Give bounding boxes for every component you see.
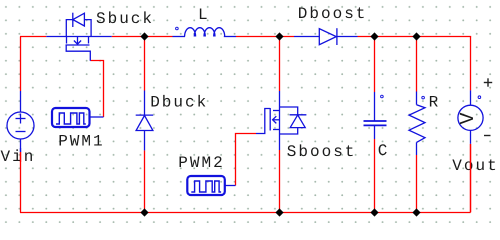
wire: top rail segment Sbuck to L [112,36,173,38]
wire: top rail segment Vin to Sbuck [20,36,46,38]
svg-text:PWM2: PWM2 [178,154,224,172]
wire: top rail segment L to Dboost [236,36,294,38]
junction C top [370,32,378,40]
pulse source PWM2 [187,176,235,195]
resistor R [409,92,425,156]
wire: bottom bus [20,212,471,214]
wire overlay over Vout label [470,144,472,212]
diode Dboost [294,28,358,45]
wire: Sbuck gate to PWM1 [90,61,103,118]
plus marker [484,78,492,86]
inductor L [173,27,237,36]
wire overlay over Vin label [20,148,22,152]
minus marker [484,135,491,137]
capacitor C [364,92,387,139]
svg-text:Dbuck: Dbuck [150,94,208,112]
wire: Dbuck bottom [144,150,146,212]
svg-text:C: C [378,142,390,160]
voltmeter Vout [458,90,483,143]
svg-text:Sboost: Sboost [287,143,357,161]
wire: C bottom [374,139,376,213]
voltage source Vin [7,91,34,152]
svg-text:PWM1: PWM1 [58,132,104,150]
wire: Sboost gate to PWM2 [236,134,257,186]
diode Dbuck [136,91,154,151]
transistor Sboost (MOSFET with body diode) [256,91,306,150]
svg-text:Vout: Vout [452,157,498,175]
pulse source PWM1 [52,108,104,127]
wire: R top [416,37,418,92]
wire: Sboost source to bus [279,150,281,213]
wire: R bottom [416,155,418,213]
wire: Sboost drain [279,37,281,92]
svg-text:R: R [429,94,441,112]
svg-text:L: L [198,6,210,24]
junction Dbuck bottom [140,208,148,216]
wire: right branch bottom (from Vout) [470,144,472,213]
junction R top [412,32,420,40]
wire: top rail segment Dboost to right corner [358,36,472,38]
svg-text:Vin: Vin [1,148,36,166]
junction Sboost bottom [275,208,283,216]
transistor Sbuck (MOSFET with body diode) [46,13,111,61]
junction R bottom [412,208,420,216]
svg-text:Dboost: Dboost [298,5,368,23]
wire: left branch Vin bottom [20,152,22,213]
svg-text:V: V [457,112,480,124]
wire: Dbuck top [144,37,146,91]
svg-text:Sbuck: Sbuck [96,10,154,28]
junction Sboost top [275,32,283,40]
junction C bottom [370,208,378,216]
wire: right branch top (to Vout) [470,37,472,91]
wire: C top [374,37,376,93]
junction Dbuck top [140,32,148,40]
wire: left branch Vin top [20,37,22,92]
